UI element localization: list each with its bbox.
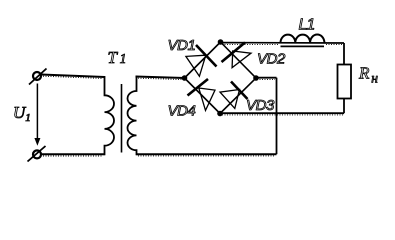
wire texture (dither teeth) xyxy=(43,44,343,156)
node B (bridge top) xyxy=(218,39,224,45)
wire (bridge branch B-C) xyxy=(221,42,257,78)
svg-text:VD2: VD2 xyxy=(257,50,286,67)
wire (bottom terminal to primary) xyxy=(42,153,105,155)
core line of L1 xyxy=(281,45,325,47)
wire (bridge branch D-C) xyxy=(220,78,256,114)
arrow u1 (voltage direction arrow) xyxy=(34,84,40,146)
diode VD2 xyxy=(222,43,252,68)
diode VD1 xyxy=(186,45,217,76)
diode VD3 xyxy=(220,82,248,109)
inductor L1 xyxy=(281,35,325,43)
wire (right riser down to bottom rail) xyxy=(276,78,278,155)
diode VD4 xyxy=(188,79,216,110)
svg-text:VD4: VD4 xyxy=(168,103,196,120)
terminal X2 (bottom-left input clamp) xyxy=(28,146,46,162)
svg-text:L1: L1 xyxy=(299,17,315,34)
wire (top node to RH branch, passes under L1) xyxy=(221,42,345,44)
wire (bridge branch A-D) xyxy=(185,78,221,114)
wire (secondary top to bridge left node) xyxy=(136,77,185,79)
svg-text:VD3: VD3 xyxy=(246,97,275,114)
resistor RH xyxy=(338,65,352,99)
wire (bottom rail to secondary bottom) xyxy=(137,153,277,155)
wire (bridge right node to right riser) xyxy=(256,77,277,79)
wire (down to RH top) xyxy=(343,43,345,65)
svg-text:T1: T1 xyxy=(108,48,127,67)
terminal X1 (top-left input clamp) xyxy=(29,69,47,85)
transformer T1 core xyxy=(121,84,123,153)
svg-text:VD1: VD1 xyxy=(168,37,196,54)
node A (bridge left) xyxy=(182,75,188,81)
transformer T1 primary winding xyxy=(105,76,115,155)
wire (bridge branch A-B) xyxy=(185,42,221,78)
wire (RH bottom down) xyxy=(343,99,345,114)
node C (bridge right) xyxy=(253,75,259,81)
wire (minus rail: RH bottom to bridge bottom node) xyxy=(220,112,344,114)
node D (bridge bottom) xyxy=(217,111,223,117)
wire (top terminal to primary) xyxy=(41,75,105,78)
transformer T1 secondary winding xyxy=(128,76,137,156)
